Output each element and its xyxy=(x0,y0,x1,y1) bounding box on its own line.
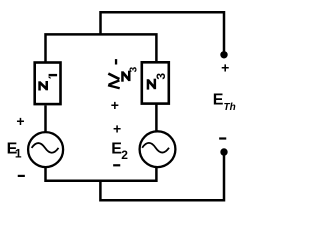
source E2 sine xyxy=(142,143,169,153)
label E2 minus xyxy=(113,164,120,166)
label E1 minus xyxy=(18,175,25,177)
svg-text:+: + xyxy=(111,97,119,113)
wire Z3 to E2 xyxy=(155,105,158,132)
impedance Z1 box xyxy=(35,63,61,105)
source E1 sine xyxy=(32,143,59,153)
wire top inner horizontal with branch drops xyxy=(46,34,157,62)
impedance Z3 box xyxy=(142,62,169,103)
svg-text:3: 3 xyxy=(154,73,168,80)
svg-text:+: + xyxy=(221,60,229,76)
label V minus (rotated) xyxy=(115,59,117,64)
node terminal top dot xyxy=(220,51,227,58)
label V subscript Z (rotated, drawn) xyxy=(122,71,129,82)
svg-text:1: 1 xyxy=(15,147,22,161)
wire top tap to right terminal xyxy=(101,12,225,52)
svg-text:+: + xyxy=(16,113,24,129)
svg-text:3: 3 xyxy=(128,66,139,72)
label V (rotated italic, drawn) xyxy=(108,74,120,89)
svg-text:E: E xyxy=(213,91,224,108)
wire bottom inner between sources xyxy=(46,166,157,181)
impedance Z1 label Z (rotated, drawn) xyxy=(40,81,47,91)
wire Z1 to E1 xyxy=(44,106,47,133)
label ETh minus xyxy=(219,137,226,139)
impedance Z1 subscript 1 (rotated, drawn) xyxy=(49,74,58,79)
node terminal bottom dot xyxy=(220,148,227,155)
source E1 circle xyxy=(28,132,63,167)
svg-text:2: 2 xyxy=(121,148,128,162)
svg-text:Th: Th xyxy=(224,102,236,113)
svg-text:+: + xyxy=(113,121,121,137)
wire bottom outer from bottom terminal xyxy=(100,152,224,200)
impedance Z3 label Z (rotated, drawn) xyxy=(148,79,155,90)
source E2 circle xyxy=(140,131,176,167)
